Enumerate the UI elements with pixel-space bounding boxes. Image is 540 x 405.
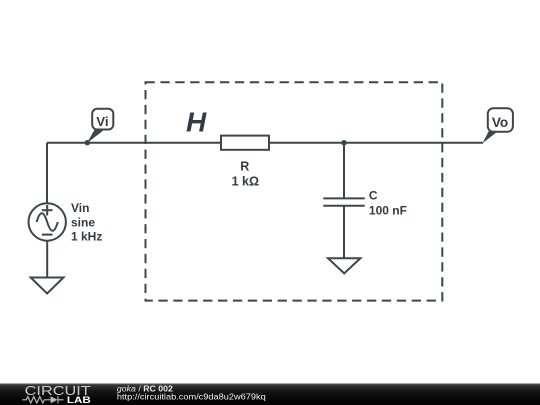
dashed box (H subcircuit boundary) [146, 82, 443, 300]
wire from junction down to capacitor [343, 143, 345, 199]
resistor R [221, 136, 269, 150]
svg-text:Vin: Vin [71, 201, 89, 215]
svg-text:H: H [186, 107, 207, 138]
svg-text:LAB: LAB [67, 395, 91, 405]
ground (below C) [328, 258, 360, 273]
svg-text:C: C [369, 188, 378, 202]
svg-text:sine: sine [71, 216, 95, 230]
svg-text:R: R [240, 160, 249, 174]
svg-text:Vi: Vi [96, 114, 108, 129]
capacitor C plates [323, 197, 364, 199]
wire from capacitor bottom to ground [343, 206, 345, 259]
svg-text:100 nF: 100 nF [369, 203, 407, 217]
node flag pointer Vi [87, 129, 103, 143]
svg-text:Vo: Vo [492, 115, 508, 130]
node label Vo [488, 108, 513, 132]
wire from V1 bottom to ground [46, 241, 48, 278]
wire vertical from V1 top to main wire [46, 143, 48, 203]
node Vi junction dot [85, 140, 90, 145]
node junction dot at capacitor branch [341, 140, 346, 145]
svg-text:1 kHz: 1 kHz [71, 230, 102, 244]
svg-text:http://circuitlab.com/c9da8u2w: http://circuitlab.com/c9da8u2w679kq [117, 392, 266, 402]
node label Vi [92, 109, 113, 130]
wire main horizontal Vi-to-Vo [47, 142, 483, 144]
footer bar [0, 384, 540, 405]
CircuitLab logo resistor-diode symbol [22, 396, 63, 403]
svg-text:1 kΩ: 1 kΩ [232, 175, 259, 189]
ground (below V1) [31, 278, 64, 294]
node flag pointer Vo [483, 131, 498, 143]
voltage source V1 (Vin sine) [29, 203, 66, 240]
